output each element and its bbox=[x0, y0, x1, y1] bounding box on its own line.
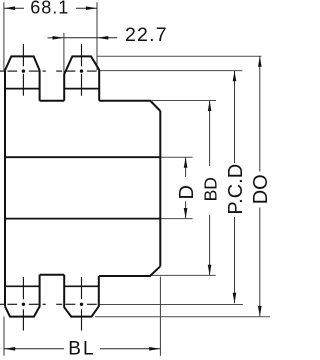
extension line PCD bottom (y=304.4) bbox=[99, 304, 243, 306]
dimension 68.1 arrow right bbox=[86, 6, 97, 10]
svg-text:BD: BD bbox=[201, 177, 221, 201]
dimension 22.7 line bbox=[64, 37, 97, 39]
svg-text:68.1: 68.1 bbox=[30, 0, 69, 18]
tooth2 top centerline horizontal bbox=[56, 70, 96, 72]
dimension 22.7 arrow right (outside pointing left) bbox=[97, 37, 117, 39]
extension line D bottom (y=218.6) bbox=[161, 218, 193, 220]
tooth1 bottom centerline vertical bbox=[22, 277, 24, 331]
hub right face bbox=[159, 111, 161, 266]
dimension BL arrow left bbox=[4, 347, 15, 351]
root line bottom bbox=[5, 285, 99, 287]
tooth1 bottom centerline horizontal bbox=[0, 303, 46, 305]
extension line right of tooth2 wall (68.1/22.7, x=97.6) bbox=[96, 2, 98, 70]
tooth1 top centerline vertical bbox=[22, 44, 24, 96]
extension line PCD top (y=70.6) bbox=[99, 70, 242, 72]
bottom gap ceiling bbox=[40, 274, 65, 276]
dimension 68.1 line bbox=[4, 7, 97, 9]
dimension DO arrows bbox=[258, 56, 262, 66]
bore line bottom bbox=[5, 218, 160, 220]
tooth1 bottom center dot bbox=[22, 303, 25, 306]
top tooth1 profile bbox=[5, 56, 40, 100]
tooth1 top center dot bbox=[22, 69, 25, 72]
bottom tooth2 profile bbox=[64, 275, 99, 317]
plate left face bbox=[4, 70, 6, 306]
sprocket outline bbox=[5, 56, 160, 316]
tooth2 bottom center dot bbox=[80, 303, 83, 306]
dimension DO vertical line bbox=[259, 56, 261, 316]
svg-text:D: D bbox=[176, 185, 198, 199]
extension line BD bottom (y=275.4) bbox=[152, 274, 216, 276]
tooth2 top centerline vertical bbox=[81, 44, 83, 96]
svg-text:P.C.D: P.C.D bbox=[225, 164, 247, 215]
dimension BD vertical line bbox=[209, 101, 211, 276]
extension line left (68.1 / BL, x=4.3) bbox=[3, 2, 5, 356]
dimension PCD arrows bbox=[233, 71, 237, 81]
svg-text:BL: BL bbox=[68, 339, 95, 360]
top gap bottom bbox=[40, 100, 65, 102]
hub top edge bbox=[99, 101, 160, 111]
bore line top bbox=[5, 156, 160, 158]
svg-text:DO: DO bbox=[250, 174, 270, 204]
extension line hub face below (BL right, x=160.4) bbox=[159, 277, 161, 356]
dimension D arrows bbox=[184, 157, 188, 167]
dimension 22.7 arrow left (outside pointing right) bbox=[48, 37, 64, 39]
svg-text:22.7: 22.7 bbox=[125, 24, 168, 46]
extension line DO bottom (y=316.8) bbox=[95, 316, 270, 318]
extension line 22.7 left (x=63.8) bbox=[63, 33, 65, 75]
top tooth2 profile bbox=[64, 56, 99, 100]
extension line BD top (y=100.2) bbox=[152, 100, 216, 102]
dimension BL line bbox=[4, 348, 160, 350]
bottom tooth1 profile bbox=[5, 275, 40, 317]
dimension PCD vertical line bbox=[234, 71, 236, 303]
tooth1 top centerline horizontal bbox=[0, 70, 46, 72]
dimension BD arrows bbox=[208, 101, 212, 111]
tooth2 bottom centerline vertical bbox=[81, 277, 83, 331]
dimension BL arrow right bbox=[149, 347, 160, 351]
dimension 68.1 arrow left bbox=[4, 6, 15, 10]
hub bottom edge bbox=[99, 266, 161, 276]
extension line DO top (y=56.2) bbox=[97, 55, 262, 57]
tooth2 top center dot bbox=[80, 69, 83, 72]
tooth2 bottom centerline horizontal bbox=[56, 303, 96, 305]
dimension D vertical line bbox=[185, 157, 187, 218]
root line top bbox=[5, 88, 99, 90]
extension line D top (y=157.2) bbox=[161, 156, 193, 158]
